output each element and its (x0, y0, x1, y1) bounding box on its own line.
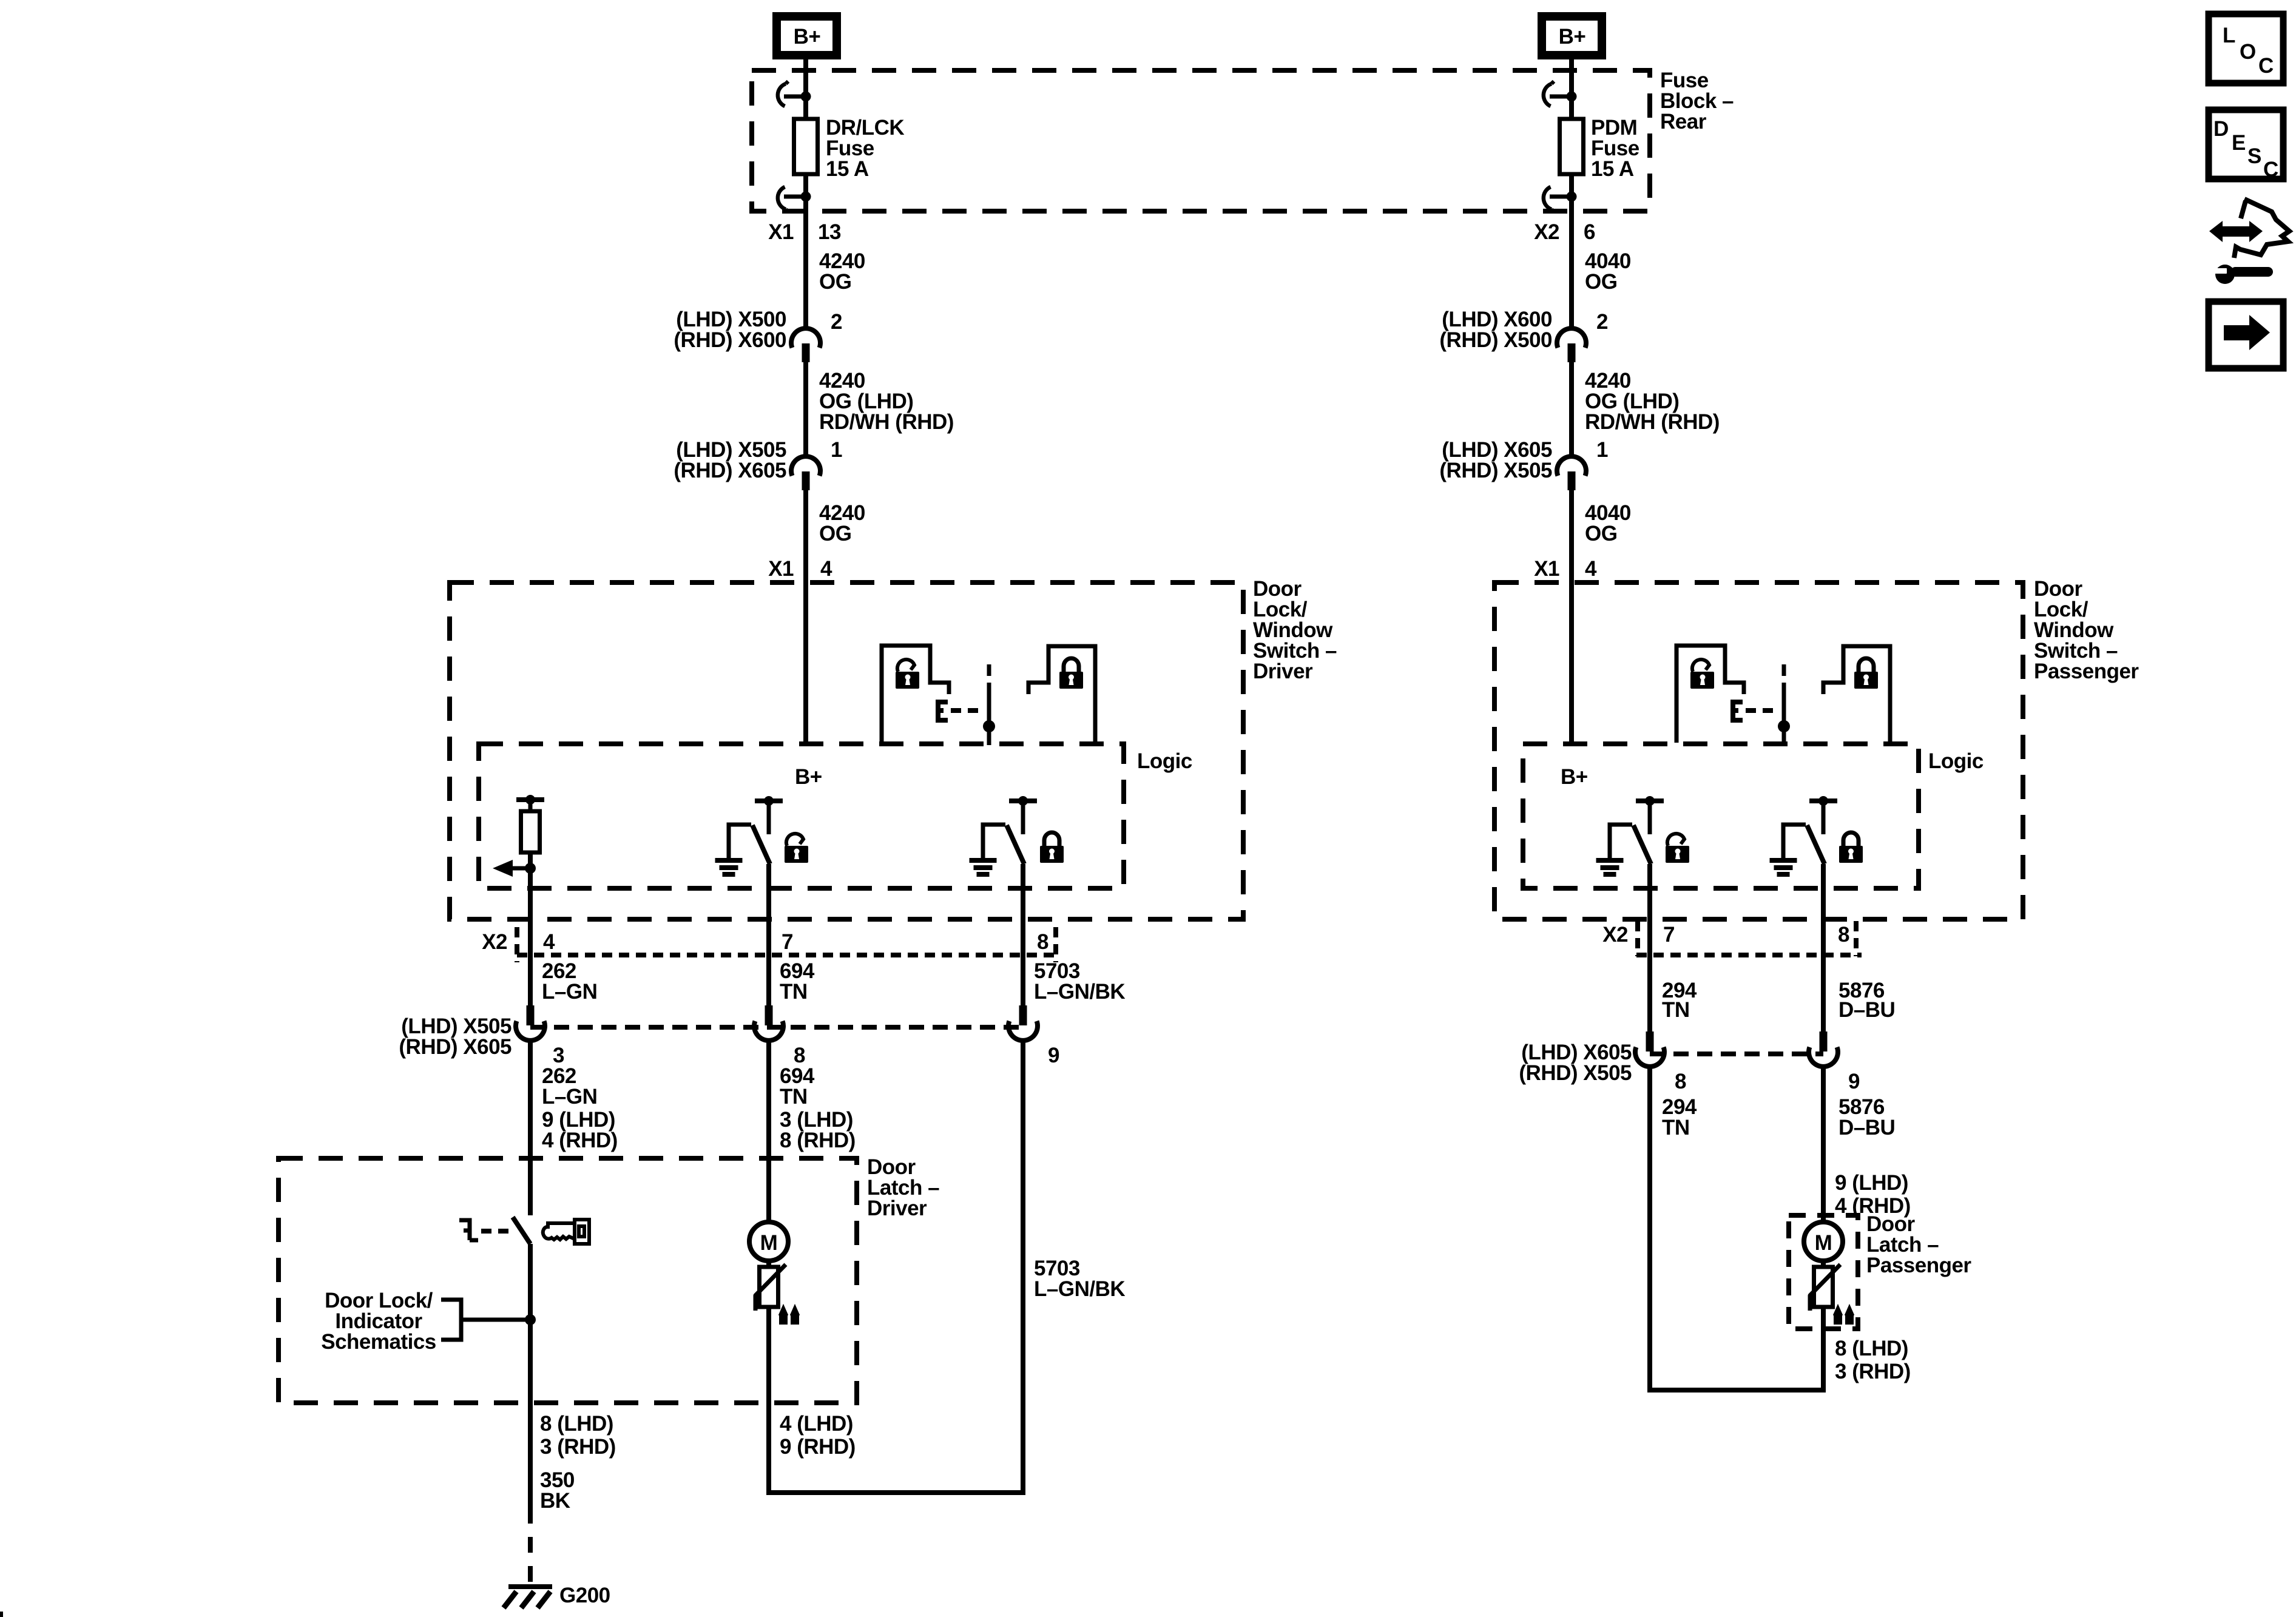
X605 connector bus dotted line (passenger) (1650, 1052, 1823, 1056)
wire pin8 branch down (passenger) (1821, 864, 1826, 1031)
node junction (indicator tap) (525, 1314, 536, 1325)
fuse clip bottom (driver) (778, 187, 811, 212)
label Door Latch - Passenger (1866, 1212, 1971, 1277)
svg-text:X1: X1 (1534, 557, 1559, 581)
open padlock (passenger switch icon) (1690, 660, 1714, 689)
wire motor return down (766, 1307, 771, 1495)
X505 connector bus dotted line (driver) (530, 1025, 1023, 1030)
key switch contact bracket (459, 1220, 478, 1240)
dashed link (passenger switch icon) (1746, 708, 1779, 713)
svg-text:X2: X2 (482, 930, 507, 954)
wire fuse to X2-6 (1569, 174, 1574, 328)
resistor (driver logic) (521, 811, 540, 852)
svg-text:4: 4 (543, 930, 555, 954)
wire key branch down (528, 1041, 533, 1215)
wire pin7 branch down (766, 864, 771, 1005)
svg-text:1: 1 (831, 438, 842, 462)
inline connector (driver, pin 9) (1008, 1005, 1038, 1041)
unlock switch (passenger logic) (1596, 796, 1664, 877)
svg-text:4: 4 (1585, 557, 1597, 581)
fuse clip top (driver) (778, 81, 811, 106)
svg-text:8: 8 (1838, 923, 1849, 947)
fuse clip bottom (passenger) (1544, 187, 1577, 212)
svg-text:2: 2 (831, 310, 842, 334)
svg-text:7: 7 (1663, 923, 1675, 947)
svg-text:8 (LHD): 8 (LHD) (540, 1412, 613, 1436)
open padlock (driver logic) (785, 834, 808, 863)
inline connector X605/X505 (passenger, pin 8) (1635, 1031, 1664, 1067)
B+ terminal (driver feed) (777, 16, 837, 55)
svg-text:Rear: Rear (1660, 110, 1707, 133)
open padlock (driver switch icon) (896, 660, 919, 689)
wire 5703 down (1021, 1041, 1025, 1495)
page corner mark (0, 1612, 3, 1617)
svg-text:(RHD) X505: (RHD) X505 (1519, 1061, 1632, 1085)
label Fuse Block - Rear (1660, 69, 1734, 133)
svg-text:OG: OG (1585, 522, 1617, 545)
key icon (543, 1220, 589, 1244)
wire passenger bottom loop (1650, 1388, 1823, 1393)
svg-text:8 (RHD): 8 (RHD) (780, 1129, 856, 1152)
closed padlock (driver logic) (1040, 832, 1064, 863)
svg-text:E: E (2232, 131, 2246, 155)
E pivot bracket (driver switch icon) (938, 702, 948, 720)
fuse clip top (passenger) (1544, 81, 1577, 106)
E pivot bracket (passenger switch icon) (1733, 702, 1743, 720)
wire (766, 1261, 771, 1267)
svg-text:3 (RHD): 3 (RHD) (1835, 1360, 1911, 1383)
DESC nav box (2209, 110, 2283, 181)
B+ terminal (passenger feed) (1542, 16, 1602, 55)
label Door Lock/Indicator Schematics (321, 1289, 436, 1354)
svg-text:TN: TN (1662, 1116, 1690, 1139)
next page arrow box (2209, 302, 2283, 368)
svg-text:1: 1 (1596, 438, 1608, 462)
wire passenger right branch down (1821, 1067, 1826, 1223)
svg-text:L–GN/BK: L–GN/BK (1034, 980, 1125, 1004)
connector repair tool icon (2209, 199, 2289, 284)
dashed ground lead (528, 1508, 533, 1582)
wire (1821, 1261, 1826, 1267)
node junction with arrow (525, 863, 536, 874)
svg-text:7: 7 (782, 930, 793, 954)
svg-text:15 A: 15 A (1591, 157, 1634, 181)
svg-text:Passenger: Passenger (1866, 1254, 1971, 1277)
resistor branch top contact (driver) (516, 795, 544, 805)
svg-text:6: 6 (1584, 220, 1595, 244)
X2 pin bus dotted line (driver) (517, 953, 1056, 957)
wire B+ to PDM fuse (1569, 59, 1574, 119)
inline connector (passenger, pin 9) (1809, 1031, 1838, 1067)
fuse DR/LCK 15A (794, 119, 818, 174)
Door Lock/Window Switch - Passenger dashed box (1494, 582, 2023, 919)
svg-text:X2: X2 (1602, 923, 1628, 947)
dashed link (driver switch icon) (951, 708, 984, 713)
unlock switch (driver logic) (715, 796, 783, 877)
svg-text:L: L (2223, 24, 2235, 47)
inline connector (driver, pin 8) (754, 1005, 783, 1041)
svg-text:B+: B+ (794, 25, 821, 49)
svg-text:D–BU: D–BU (1838, 998, 1895, 1022)
svg-text:L–GN/BK: L–GN/BK (1034, 1277, 1125, 1301)
svg-text:(RHD) X605: (RHD) X605 (399, 1035, 512, 1059)
wire passenger left branch down (1647, 1067, 1652, 1393)
svg-text:8: 8 (1037, 930, 1048, 954)
svg-text:Logic: Logic (1928, 749, 1984, 773)
PTC thermal protector (driver latch) (755, 1264, 800, 1325)
closed padlock (passenger logic) (1839, 832, 1863, 863)
svg-text:9 (LHD): 9 (LHD) (1835, 1171, 1908, 1195)
svg-text:X2: X2 (1534, 220, 1559, 244)
Door Latch - Passenger dashed box (1789, 1215, 1858, 1329)
wire to driver switch (803, 490, 808, 744)
svg-text:13: 13 (818, 220, 841, 244)
lock door icon (passenger switch) (1823, 646, 1890, 743)
Logic dashed box (driver) (479, 744, 1124, 888)
svg-text:Driver: Driver (867, 1197, 927, 1220)
Fuse Block - Rear dashed box (752, 70, 1650, 211)
lock switch (passenger logic) (1770, 796, 1838, 877)
svg-text:9 (RHD): 9 (RHD) (780, 1435, 856, 1459)
key switch blade (513, 1217, 530, 1244)
motor M (passenger latch) (1804, 1222, 1843, 1261)
wire (528, 802, 533, 811)
X2 connector frame ticks (driver) (517, 927, 1056, 962)
svg-text:OG: OG (1585, 270, 1617, 294)
fuse PDM 15A (1560, 119, 1584, 174)
svg-text:15 A: 15 A (826, 157, 869, 181)
rocker lever (passenger switch icon) (1778, 664, 1790, 745)
lock door icon (driver switch) (1028, 646, 1095, 743)
wire below key switch (528, 1244, 533, 1508)
inline connector X505/X605 pin 1 (791, 456, 820, 490)
svg-text:B+: B+ (795, 765, 822, 789)
wire pin8 branch down (1021, 864, 1025, 1005)
wire B+ to DR/LCK fuse (803, 59, 808, 119)
Logic dashed box (passenger) (1523, 744, 1919, 888)
wire fuse to X1-13 (803, 174, 808, 328)
svg-text:3 (RHD): 3 (RHD) (540, 1435, 616, 1459)
wire pin7 branch down (passenger) (1647, 864, 1652, 1031)
svg-text:B+: B+ (1559, 25, 1586, 49)
svg-text:B+: B+ (1561, 765, 1588, 789)
svg-text:2: 2 (1596, 310, 1608, 334)
wire bracket to junction (461, 1318, 530, 1322)
svg-text:L–GN: L–GN (542, 1085, 597, 1109)
wire to passenger switch (1569, 490, 1574, 744)
svg-text:4: 4 (820, 557, 832, 581)
label Door Lock/Window Switch - Passenger (2034, 577, 2139, 683)
wire motor return down (passenger) (1821, 1307, 1826, 1393)
X2 pin bus dotted line (passenger) (1636, 953, 1862, 957)
svg-text:D: D (2213, 117, 2229, 141)
closed padlock (passenger switch icon) (1854, 658, 1878, 689)
rocker lever (driver switch icon) (983, 664, 995, 745)
indicator schematics bracket (441, 1300, 461, 1340)
wire motor branch down (766, 1041, 771, 1223)
inline connector X505/X605 (driver, pin 3) (516, 1005, 545, 1041)
svg-text:D–BU: D–BU (1838, 1116, 1895, 1139)
svg-text:Driver: Driver (1253, 660, 1313, 683)
X2 connector frame ticks (passenger) (1638, 921, 1856, 956)
inline connector X500/X600 pin 2 (791, 328, 820, 362)
svg-text:4 (LHD): 4 (LHD) (780, 1412, 853, 1436)
svg-text:O: O (2240, 40, 2256, 64)
label Door Latch - Driver (867, 1155, 939, 1220)
wire (528, 852, 533, 868)
svg-text:9: 9 (1048, 1044, 1059, 1067)
svg-text:RD/WH (RHD): RD/WH (RHD) (1585, 410, 1720, 434)
key switch dashed link (481, 1229, 510, 1234)
open padlock (passenger logic) (1666, 834, 1689, 863)
svg-text:4 (RHD): 4 (RHD) (542, 1129, 618, 1152)
inline connector X605/X505 pin 1 (1557, 456, 1586, 490)
Door Latch - Driver dashed box (279, 1158, 857, 1403)
svg-text:9: 9 (1848, 1070, 1860, 1093)
svg-text:X1: X1 (768, 557, 794, 581)
svg-text:G200: G200 (559, 1584, 610, 1607)
svg-text:X1: X1 (768, 220, 794, 244)
motor M (driver latch) (749, 1222, 788, 1261)
arrow to left (512, 866, 530, 871)
svg-text:(RHD) X605: (RHD) X605 (674, 459, 786, 482)
svg-text:Logic: Logic (1137, 749, 1192, 773)
svg-text:OG: OG (819, 522, 851, 545)
LOC nav box (2209, 14, 2283, 83)
svg-text:OG: OG (819, 270, 851, 294)
wire connector to connector (803, 362, 808, 456)
svg-text:TN: TN (780, 1085, 808, 1109)
svg-text:(RHD) X500: (RHD) X500 (1439, 328, 1552, 352)
svg-text:C: C (2263, 158, 2278, 181)
wire motor return loop (769, 1490, 1023, 1495)
wire connector to connector (passenger) (1569, 362, 1574, 456)
svg-text:8 (LHD): 8 (LHD) (1835, 1337, 1908, 1360)
inline connector X600/X500 pin 2 (1557, 328, 1586, 362)
svg-text:L–GN: L–GN (542, 980, 597, 1004)
svg-text:(RHD) X505: (RHD) X505 (1439, 459, 1552, 482)
unlock door icon (driver switch) (882, 646, 949, 743)
label Door Lock/Window Switch - Driver (1253, 577, 1337, 683)
wire pin4 branch down (528, 868, 533, 1005)
ground G200 (504, 1584, 552, 1608)
PTC thermal protector (passenger latch) (1810, 1264, 1854, 1325)
svg-text:TN: TN (1662, 998, 1690, 1022)
lock switch (driver logic) (970, 796, 1038, 877)
svg-text:TN: TN (780, 980, 808, 1004)
svg-text:(RHD) X600: (RHD) X600 (674, 328, 786, 352)
svg-text:BK: BK (540, 1489, 570, 1513)
svg-text:RD/WH (RHD): RD/WH (RHD) (819, 410, 954, 434)
Door Lock/Window Switch - Driver dashed box (450, 582, 1243, 919)
svg-text:C: C (2258, 54, 2274, 78)
svg-text:Schematics: Schematics (321, 1330, 436, 1354)
svg-text:Passenger: Passenger (2034, 660, 2139, 683)
unlock door icon (passenger switch) (1676, 646, 1744, 743)
svg-text:S: S (2247, 144, 2261, 168)
svg-text:8: 8 (1675, 1070, 1686, 1093)
closed padlock (driver switch icon) (1059, 658, 1083, 689)
